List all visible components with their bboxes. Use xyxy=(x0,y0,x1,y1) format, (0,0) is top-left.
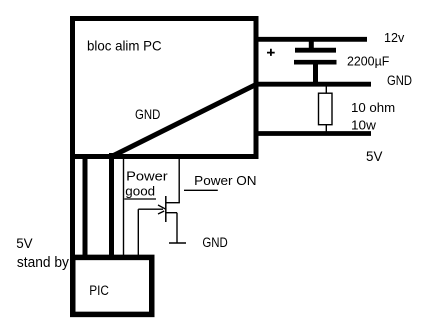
power supply box U1 (bloc alim PC) xyxy=(73,19,257,157)
svg-text:Power: Power xyxy=(126,168,168,183)
wire 5V rail xyxy=(254,131,371,136)
wire Power good to PIC xyxy=(123,159,125,258)
transistor Q1 body xyxy=(165,196,167,222)
resistor R1 bottom lead xyxy=(325,125,327,132)
wire GND diagonal inside box xyxy=(112,85,257,157)
underline of good xyxy=(124,198,156,200)
label + polarity xyxy=(267,49,275,56)
underline of Power ON xyxy=(184,189,218,191)
resistor R1 top lead xyxy=(325,86,327,94)
svg-text:stand by: stand by xyxy=(17,254,69,271)
svg-text:good: good xyxy=(125,183,155,198)
svg-text:bloc alim PC: bloc alim PC xyxy=(87,38,162,54)
svg-text:5V: 5V xyxy=(16,236,32,251)
resistor R1 body xyxy=(319,93,333,125)
svg-text:12v: 12v xyxy=(384,30,405,45)
wire GND rail xyxy=(254,82,371,87)
svg-text:GND: GND xyxy=(135,107,161,122)
transistor Q1 gate arrow xyxy=(158,205,166,214)
wire GND junction to PIC xyxy=(109,153,114,258)
wire 12v rail xyxy=(254,37,367,42)
wire gate to PIC xyxy=(137,209,139,258)
svg-text:GND: GND xyxy=(387,73,412,88)
capacitor C1 bottom plate xyxy=(294,60,337,65)
transistor Q1 source connection xyxy=(166,212,177,214)
ground xyxy=(169,242,186,244)
svg-text:Power ON: Power ON xyxy=(194,173,256,188)
svg-text:10 ohm: 10 ohm xyxy=(351,100,395,115)
wire supply to PIC xyxy=(83,157,88,259)
svg-text:10w: 10w xyxy=(351,118,377,133)
transistor Q1 gate wire xyxy=(138,208,163,210)
wire 5V standby to PIC xyxy=(70,157,75,259)
wire Power ON from box to transistor drain xyxy=(178,159,180,203)
capacitor C1 bottom stub xyxy=(313,62,318,84)
transistor Q1 drain connection xyxy=(166,202,180,204)
svg-text:PIC: PIC xyxy=(89,283,109,298)
capacitor C1 top stub xyxy=(309,39,314,50)
svg-text:2200µF: 2200µF xyxy=(347,53,389,68)
wire source to ground xyxy=(176,213,178,243)
svg-text:GND: GND xyxy=(202,235,228,250)
capacitor C1 top plate xyxy=(295,48,336,53)
microcontroller PIC box xyxy=(73,257,152,314)
svg-text:5V: 5V xyxy=(366,149,382,164)
